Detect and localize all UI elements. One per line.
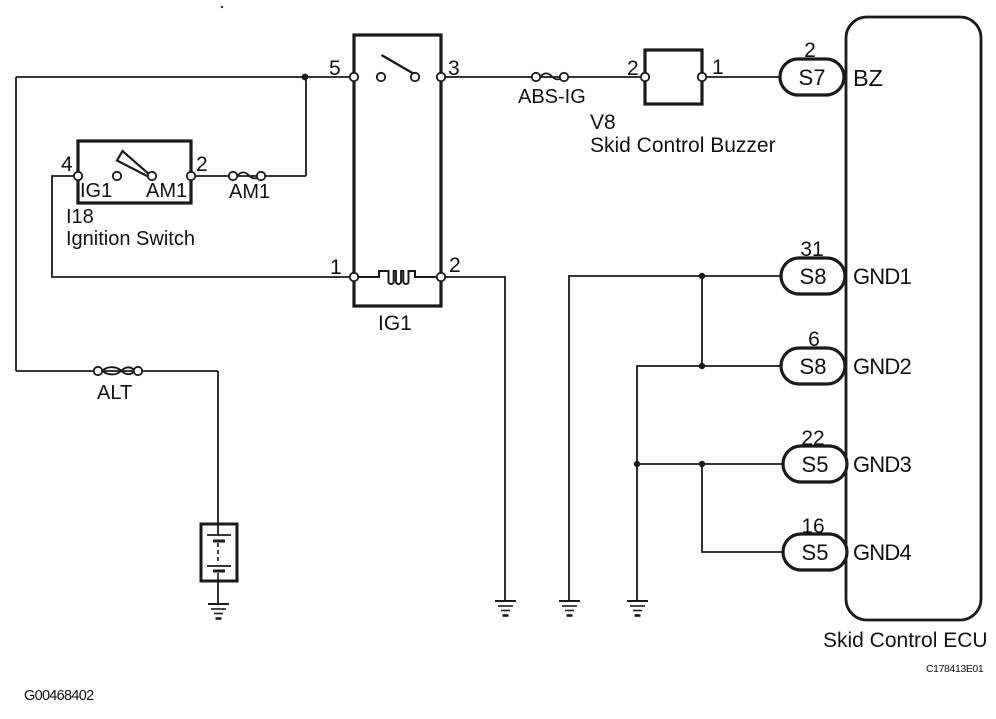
wire tie GND1-GND2 bbox=[701, 276, 703, 366]
fuse AM1 bbox=[237, 172, 261, 178]
fuse ABS-IG bbox=[540, 73, 564, 79]
relay contact circle right bbox=[411, 73, 419, 81]
relay contact circle left bbox=[377, 73, 385, 81]
svg-text:Skid Control ECU: Skid Control ECU bbox=[823, 629, 988, 652]
wire battery to ground bbox=[217, 580, 219, 604]
svg-text:4: 4 bbox=[61, 153, 73, 176]
svg-text:S5: S5 bbox=[802, 540, 829, 565]
wire left vertical rail bbox=[15, 77, 17, 371]
svg-text:IG1: IG1 bbox=[378, 312, 412, 335]
relay IG1 box bbox=[354, 35, 441, 306]
relay pin 1 bbox=[350, 273, 358, 281]
svg-text:AM1: AM1 bbox=[146, 180, 187, 202]
svg-text:I18: I18 bbox=[66, 206, 94, 228]
wire GND1 from S8 to ground bbox=[569, 276, 781, 601]
ground GND1 bbox=[559, 601, 580, 616]
wire ignition pin 2 through fuse AM1 to node bbox=[191, 175, 306, 177]
svg-text:V8: V8 bbox=[590, 111, 616, 134]
svg-text:1: 1 bbox=[712, 56, 724, 79]
svg-text:GND1: GND1 bbox=[853, 264, 911, 289]
buzzer pin 1 bbox=[698, 73, 706, 81]
Skid Control ECU box bbox=[846, 17, 981, 620]
ignition switch key lever bbox=[117, 151, 150, 177]
svg-text:GND4: GND4 bbox=[853, 540, 911, 565]
connector S5 pin 16 bbox=[783, 515, 847, 570]
svg-text:16: 16 bbox=[801, 515, 824, 538]
ground battery bbox=[208, 604, 229, 619]
wire GND3 from S5 to riser bbox=[636, 463, 783, 465]
svg-text:S8: S8 bbox=[800, 354, 827, 379]
svg-text:2: 2 bbox=[196, 153, 208, 176]
svg-text:AM1: AM1 bbox=[229, 181, 270, 203]
relay coil bbox=[354, 271, 441, 284]
svg-text:S8: S8 bbox=[800, 264, 827, 289]
svg-text:5: 5 bbox=[329, 57, 341, 80]
wire relay pin 2 to ground bbox=[441, 277, 505, 601]
svg-text:S5: S5 bbox=[802, 452, 829, 477]
relay pin 5 bbox=[350, 73, 358, 81]
relay pin 2 bbox=[437, 273, 445, 281]
connector S5 pin 22 bbox=[783, 427, 847, 482]
wire node riser to top rail bbox=[305, 77, 307, 176]
connector S8 pin 6 bbox=[781, 328, 845, 384]
svg-text:C178413E01: C178413E01 bbox=[926, 663, 984, 675]
svg-text:2: 2 bbox=[449, 254, 461, 277]
ignition switch pin 4 bbox=[74, 172, 82, 180]
svg-text:6: 6 bbox=[808, 328, 820, 351]
svg-text:Skid Control Buzzer: Skid Control Buzzer bbox=[590, 134, 776, 157]
svg-text:GND2: GND2 bbox=[853, 354, 911, 379]
ignition switch contact IG1 bbox=[113, 172, 121, 180]
svg-text:ALT: ALT bbox=[97, 382, 132, 404]
node junction GND2 tie bbox=[699, 363, 705, 369]
svg-text:Ignition Switch: Ignition Switch bbox=[66, 228, 195, 250]
connector S8 pin 31 bbox=[781, 238, 845, 294]
node junction GND1 tie bbox=[699, 273, 705, 279]
wire battery drop vertical bbox=[217, 371, 219, 526]
svg-text:G00468402: G00468402 bbox=[24, 688, 94, 704]
relay pin 3 bbox=[437, 73, 445, 81]
wire buzzer pin 1 to connector S7 bbox=[702, 76, 783, 78]
svg-text:ABS-IG: ABS-IG bbox=[518, 86, 586, 108]
svg-text:GND3: GND3 bbox=[853, 452, 911, 477]
speck bbox=[221, 6, 223, 8]
svg-text:S7: S7 bbox=[799, 65, 826, 90]
svg-text:BZ: BZ bbox=[853, 65, 883, 91]
wire relay pin 3 to buzzer pin 2 bbox=[441, 76, 645, 78]
svg-text:IG1: IG1 bbox=[80, 180, 112, 202]
ground relay pin2 bbox=[495, 601, 516, 616]
svg-text:2: 2 bbox=[627, 57, 639, 80]
ground GND2 bbox=[627, 601, 648, 616]
ignition switch I18 box bbox=[78, 141, 191, 203]
svg-text:22: 22 bbox=[801, 427, 824, 450]
svg-text:3: 3 bbox=[448, 57, 460, 80]
buzzer V8 box bbox=[645, 50, 702, 104]
ignition switch contact AM1 bbox=[148, 172, 156, 180]
node junction GND3 riser bbox=[634, 461, 640, 467]
wire ALT feed horizontal bbox=[16, 370, 218, 372]
svg-text:31: 31 bbox=[800, 238, 823, 261]
buzzer pin 2 bbox=[641, 73, 649, 81]
wire tie GND3-GND4 bbox=[702, 464, 783, 552]
fusible link ALT bbox=[101, 367, 136, 374]
wire GND2 from S8 to ground bbox=[637, 366, 781, 601]
node junction GND3 tie bbox=[699, 461, 705, 467]
connector S7 pin 2 bbox=[780, 39, 844, 95]
ignition switch pin 2 bbox=[187, 172, 195, 180]
wire top horizontal from left rail to relay pin 5 bbox=[16, 76, 354, 78]
relay switch blade bbox=[382, 55, 416, 75]
battery bbox=[201, 524, 237, 581]
wire ignition pin 4 to relay pin 1 bbox=[52, 176, 354, 277]
svg-text:2: 2 bbox=[804, 39, 816, 62]
svg-text:1: 1 bbox=[330, 256, 342, 279]
node junction at top rail bbox=[302, 74, 309, 81]
